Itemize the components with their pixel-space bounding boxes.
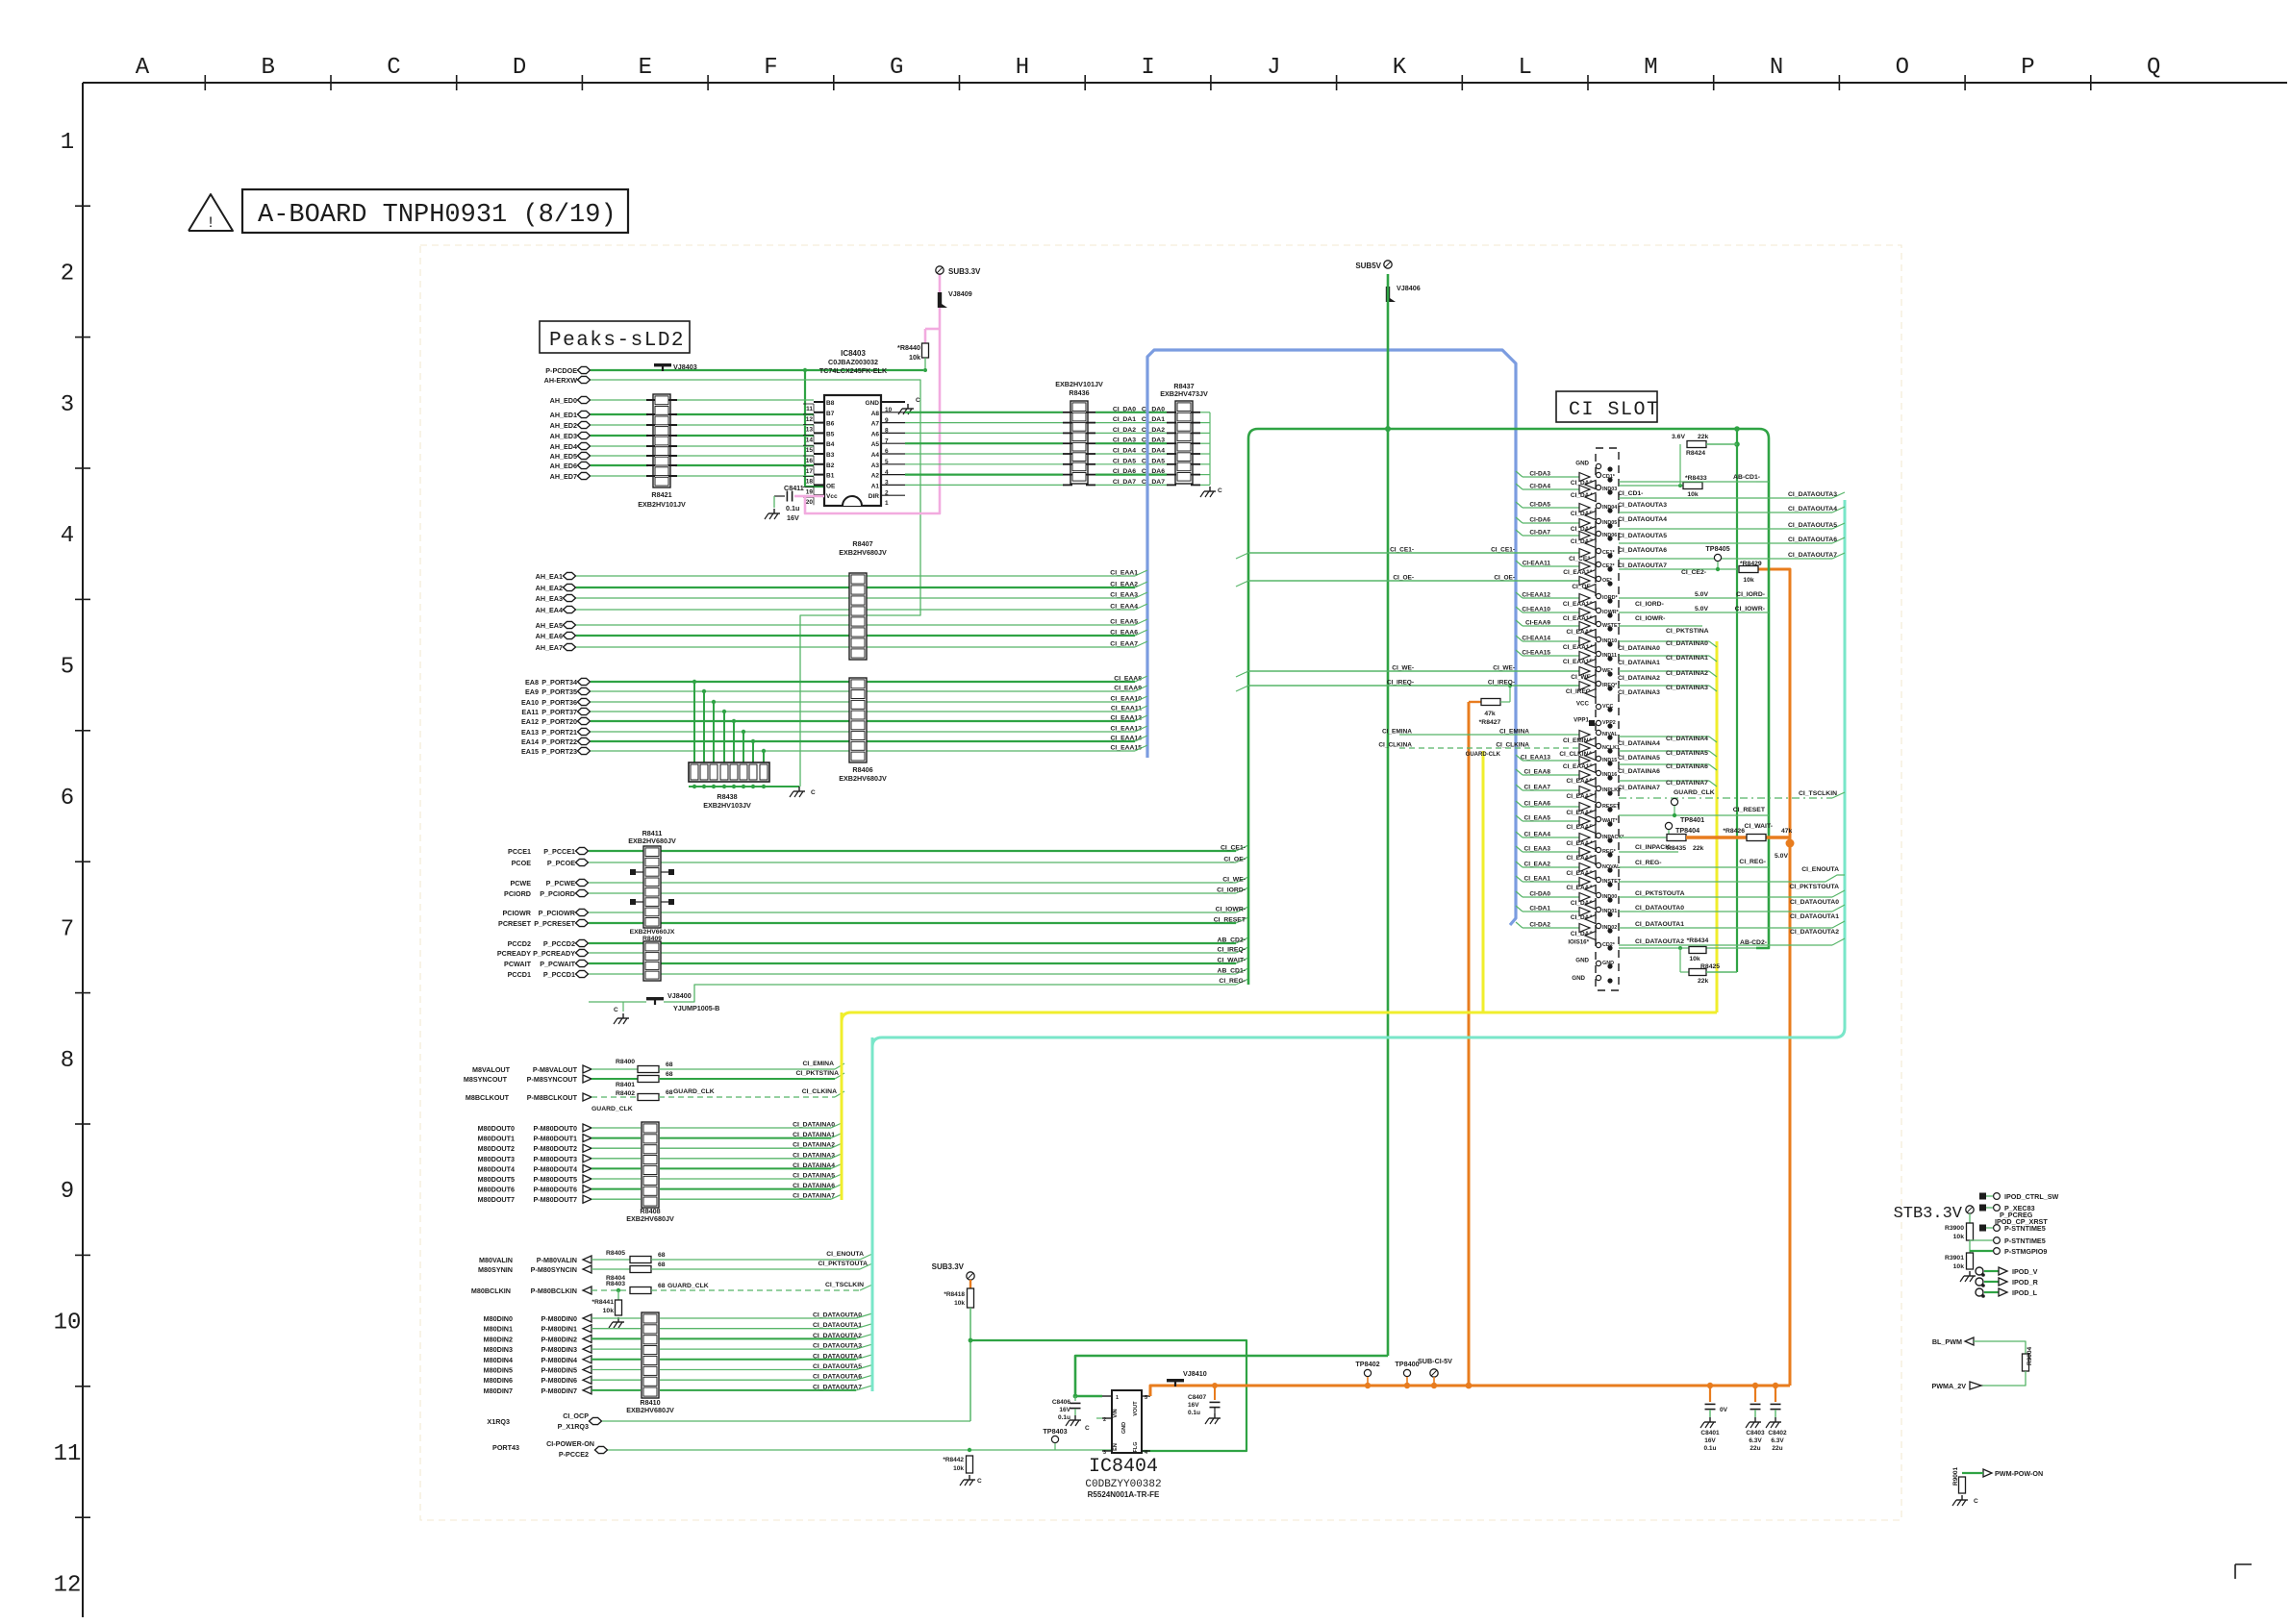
svg-text:TP8400: TP8400 bbox=[1395, 1360, 1419, 1368]
svg-text:CI_EMINA: CI_EMINA bbox=[803, 1061, 835, 1067]
svg-text:CI_DATAINA0: CI_DATAINA0 bbox=[1618, 645, 1660, 652]
svg-text:*R8427: *R8427 bbox=[1479, 719, 1501, 726]
svg-text:5.0V: 5.0V bbox=[1775, 853, 1788, 860]
svg-text:P-M80DOUT5: P-M80DOUT5 bbox=[533, 1175, 577, 1184]
svg-text:SUB-CI-5V: SUB-CI-5V bbox=[1418, 1357, 1452, 1365]
svg-text:CI_DA1: CI_DA1 bbox=[1142, 416, 1165, 423]
svg-text:CI_DATAINA3: CI_DATAINA3 bbox=[1618, 689, 1660, 696]
svg-text:EA13: EA13 bbox=[521, 728, 539, 737]
svg-text:CI_DATAINA7: CI_DATAINA7 bbox=[1666, 780, 1708, 787]
svg-text:R8421: R8421 bbox=[651, 490, 671, 499]
svg-text:CI_EAA1: CI_EAA1 bbox=[1110, 570, 1138, 577]
svg-text:7: 7 bbox=[61, 916, 74, 942]
svg-text:P_PORT22: P_PORT22 bbox=[541, 737, 577, 746]
svg-text:AH_EA1: AH_EA1 bbox=[536, 572, 563, 581]
svg-text:P-M80DIN6: P-M80DIN6 bbox=[541, 1376, 577, 1385]
svg-text:CI_DA1: CI_DA1 bbox=[1113, 416, 1136, 423]
CI_DATAINA4-7 rows to yellow bus bbox=[1619, 736, 1709, 737]
svg-text:IPOD_V: IPOD_V bbox=[2012, 1267, 2038, 1276]
svg-text:CI-DA1: CI-DA1 bbox=[1529, 906, 1550, 912]
svg-text:TC74LCX245FK-ELK: TC74LCX245FK-ELK bbox=[819, 366, 888, 375]
svg-text:A6: A6 bbox=[871, 431, 880, 437]
svg-text:SUB3.3V: SUB3.3V bbox=[948, 267, 981, 276]
svg-text:CI_WE-: CI_WE- bbox=[1493, 665, 1515, 672]
GUARD_CLK dashed to CI_TSCLKIN bbox=[1619, 797, 1832, 799]
svg-text:CI_DA4: CI_DA4 bbox=[1142, 448, 1165, 455]
svg-text:CI_EAA6: CI_EAA6 bbox=[1110, 630, 1138, 637]
svg-text:OE*: OE* bbox=[1602, 578, 1613, 584]
resistor network R8438 EXB2HV103JV horizontal bbox=[689, 762, 769, 782]
svg-text:C: C bbox=[916, 397, 920, 404]
jumper VJ8410 bbox=[1167, 1379, 1184, 1382]
dashed page area border bbox=[420, 245, 1901, 1520]
svg-text:R9001: R9001 bbox=[1952, 1466, 1959, 1486]
svg-text:Vcc: Vcc bbox=[826, 493, 838, 500]
svg-text:P_PCCD2: P_PCCD2 bbox=[543, 939, 575, 948]
svg-text:GND: GND bbox=[1602, 961, 1614, 966]
power symbol SUB5V bbox=[1384, 261, 1392, 268]
CI_IORD- CI_IOWR- rows bbox=[1619, 597, 1769, 599]
svg-text:22k: 22k bbox=[1693, 845, 1704, 852]
svg-text:IND01: IND01 bbox=[1602, 909, 1617, 914]
svg-text:IND11: IND11 bbox=[1602, 653, 1617, 659]
svg-text:VJ8409: VJ8409 bbox=[948, 289, 972, 298]
svg-text:D: D bbox=[513, 55, 526, 81]
svg-text:11: 11 bbox=[54, 1441, 82, 1467]
svg-text:10k: 10k bbox=[1687, 491, 1699, 498]
svg-text:6.3V: 6.3V bbox=[1749, 1437, 1762, 1444]
resistor R3900 bbox=[1969, 1213, 1971, 1223]
AB-CD2- row with R8434 R8425 bbox=[1619, 947, 1756, 949]
svg-text:CI_DATAINA5: CI_DATAINA5 bbox=[1666, 750, 1708, 757]
svg-text:J: J bbox=[1267, 55, 1280, 81]
svg-text:GUARD_CLK: GUARD_CLK bbox=[1674, 789, 1715, 796]
svg-text:O: O bbox=[1896, 55, 1909, 81]
svg-text:CI_OCP: CI_OCP bbox=[563, 1412, 589, 1420]
resistor R3901 bbox=[1967, 1253, 1974, 1269]
svg-text:P-M80DOUT4: P-M80DOUT4 bbox=[533, 1164, 577, 1173]
svg-text:CI_EAA5: CI_EAA5 bbox=[1110, 619, 1138, 626]
green bus x1839 right of CI slot bbox=[1756, 438, 1769, 948]
svg-text:IND03: IND03 bbox=[1602, 487, 1617, 492]
svg-text:A2: A2 bbox=[871, 473, 880, 480]
svg-text:CI_DA6: CI_DA6 bbox=[1142, 468, 1165, 475]
svg-text:CI_IREQ-: CI_IREQ- bbox=[1387, 680, 1414, 687]
svg-text:CI_EAA2: CI_EAA2 bbox=[1524, 862, 1551, 868]
svg-text:CI_PKTSTOUTA: CI_PKTSTOUTA bbox=[1635, 890, 1685, 897]
svg-text:AH_ED5: AH_ED5 bbox=[550, 452, 577, 461]
svg-text:CI-EAA9: CI-EAA9 bbox=[1525, 620, 1550, 627]
svg-text:16V: 16V bbox=[1059, 1407, 1070, 1413]
svg-text:EXB2HV101JV: EXB2HV101JV bbox=[1055, 380, 1103, 388]
svg-text:CI-EAA10: CI-EAA10 bbox=[1522, 607, 1550, 613]
CI_PKTSTINA row bbox=[1619, 625, 1702, 627]
pink 3.3V supply wire to Vcc bbox=[805, 274, 940, 513]
svg-text:IND04: IND04 bbox=[1602, 505, 1617, 511]
svg-text:CI_DATAINA2: CI_DATAINA2 bbox=[1666, 670, 1708, 677]
svg-text:CI_CLKINA: CI_CLKINA bbox=[802, 1088, 837, 1095]
svg-text:P_PCCD1: P_PCCD1 bbox=[543, 970, 575, 979]
svg-text:*R8442: *R8442 bbox=[943, 1457, 964, 1463]
svg-text:P-M80DIN5: P-M80DIN5 bbox=[541, 1366, 577, 1375]
svg-text:CI_OE-: CI_OE- bbox=[1393, 575, 1414, 582]
svg-text:M80DIN0: M80DIN0 bbox=[484, 1314, 513, 1323]
svg-text:A8: A8 bbox=[871, 411, 880, 417]
svg-text:P_PCWE: P_PCWE bbox=[546, 879, 576, 887]
svg-text:68: 68 bbox=[658, 1252, 666, 1259]
svg-text:IPOD_CP_XRST: IPOD_CP_XRST bbox=[1995, 1217, 2048, 1226]
svg-text:PCCE1: PCCE1 bbox=[508, 847, 531, 856]
svg-text:CI_DATAINA1: CI_DATAINA1 bbox=[793, 1132, 835, 1138]
resistor network R8407 EXB2HV680JV bbox=[849, 573, 867, 660]
svg-text:M80DOUT2: M80DOUT2 bbox=[478, 1144, 515, 1153]
svg-text:VJ8403: VJ8403 bbox=[673, 362, 697, 371]
jumper VJ8400 to CI_REG- bbox=[589, 1001, 646, 1003]
svg-text:CI_CE1-: CI_CE1- bbox=[1491, 547, 1515, 554]
svg-text:CI_EAA13: CI_EAA13 bbox=[1521, 755, 1550, 762]
svg-text:CI-EAA14: CI-EAA14 bbox=[1522, 636, 1550, 642]
svg-text:GUARD_CLK: GUARD_CLK bbox=[667, 1283, 709, 1289]
IC8403 left pins B8-B1,OE,Vcc bbox=[814, 401, 824, 403]
svg-text:VJ8400: VJ8400 bbox=[667, 991, 692, 1000]
svg-text:68: 68 bbox=[666, 1062, 673, 1068]
svg-text:*R8433: *R8433 bbox=[1685, 475, 1707, 482]
svg-text:PORT43: PORT43 bbox=[492, 1443, 519, 1452]
svg-text:R8424: R8424 bbox=[1686, 450, 1705, 457]
svg-text:CI_DA5: CI_DA5 bbox=[1142, 458, 1165, 464]
svg-text:CI_OE-: CI_OE- bbox=[1223, 857, 1246, 863]
svg-text:CI_IORD-: CI_IORD- bbox=[1635, 601, 1664, 608]
green bus vertical to CI slot rows bbox=[1247, 438, 1250, 985]
svg-text:EA11: EA11 bbox=[521, 708, 539, 716]
svg-text:EA15: EA15 bbox=[521, 747, 539, 756]
svg-text:CI_DA3: CI_DA3 bbox=[1113, 437, 1136, 444]
svg-text:EXB2HV680JV: EXB2HV680JV bbox=[839, 548, 887, 557]
svg-text:P-M80DIN4: P-M80DIN4 bbox=[541, 1356, 577, 1364]
svg-text:CI-DA4: CI-DA4 bbox=[1529, 484, 1550, 490]
svg-text:K: K bbox=[1393, 55, 1407, 81]
svg-text:47k: 47k bbox=[1781, 828, 1793, 835]
svg-text:CI_EMINA: CI_EMINA bbox=[1382, 729, 1412, 736]
capacitor C8406 at VIN bbox=[1073, 1394, 1078, 1399]
svg-text:C8403: C8403 bbox=[1746, 1430, 1765, 1437]
svg-text:EXB2HV680JV: EXB2HV680JV bbox=[626, 1406, 674, 1414]
svg-text:3.6V: 3.6V bbox=[1672, 434, 1685, 440]
svg-text:CI_DA0: CI_DA0 bbox=[1142, 406, 1165, 412]
svg-text:47k: 47k bbox=[1484, 711, 1496, 717]
svg-text:IND10: IND10 bbox=[1602, 638, 1617, 644]
svg-text:C: C bbox=[387, 55, 400, 81]
jumper VJ8403 bbox=[654, 363, 671, 366]
svg-text:CI_DATAOUTA5: CI_DATAOUTA5 bbox=[813, 1363, 862, 1370]
svg-text:6: 6 bbox=[61, 786, 74, 812]
resistor R8441 pulldown bbox=[617, 1288, 620, 1292]
svg-text:R5524N001A-TR-FE: R5524N001A-TR-FE bbox=[1088, 1490, 1160, 1499]
svg-text:EA8: EA8 bbox=[525, 678, 539, 687]
svg-text:10k: 10k bbox=[1743, 577, 1754, 584]
svg-text:A1: A1 bbox=[871, 483, 880, 489]
IC U8403 TC74LCX245FK body bbox=[824, 395, 881, 506]
svg-text:CI_DATAOUTA7: CI_DATAOUTA7 bbox=[1788, 552, 1837, 559]
svg-text:CI_DATAINA0: CI_DATAINA0 bbox=[1666, 640, 1708, 647]
svg-text:P_PCIORD: P_PCIORD bbox=[540, 889, 575, 898]
svg-text:CI_REG-: CI_REG- bbox=[1635, 860, 1662, 866]
svg-text:0V: 0V bbox=[1720, 1407, 1728, 1413]
svg-text:!: ! bbox=[206, 214, 215, 232]
svg-text:0.1u: 0.1u bbox=[1188, 1410, 1200, 1416]
blue bus CI address/data bbox=[1147, 350, 1516, 925]
svg-text:P-M80DOUT3: P-M80DOUT3 bbox=[533, 1155, 577, 1163]
svg-text:CI_DATAINA3: CI_DATAINA3 bbox=[1666, 685, 1708, 691]
svg-text:IND16: IND16 bbox=[1602, 772, 1617, 778]
svg-text:17: 17 bbox=[806, 468, 814, 475]
svg-text:10k: 10k bbox=[953, 1465, 964, 1472]
svg-text:9: 9 bbox=[61, 1179, 74, 1205]
svg-text:P-M80BCLKIN: P-M80BCLKIN bbox=[531, 1287, 577, 1295]
svg-text:C8401: C8401 bbox=[1700, 1430, 1720, 1437]
svg-text:P-M8VALOUT: P-M8VALOUT bbox=[533, 1065, 578, 1074]
CI_INPACK- CI_REG- labels bbox=[1619, 851, 1678, 853]
svg-text:P_PORT34: P_PORT34 bbox=[541, 678, 577, 687]
svg-text:PWMA_2V: PWMA_2V bbox=[1931, 1382, 1966, 1390]
svg-text:AH_EA5: AH_EA5 bbox=[536, 621, 563, 630]
svg-text:C8406: C8406 bbox=[1052, 1399, 1071, 1406]
svg-text:2: 2 bbox=[61, 261, 74, 287]
svg-text:IOIS16*: IOIS16* bbox=[1568, 939, 1589, 946]
svg-text:CI_CD1-: CI_CD1- bbox=[1618, 490, 1643, 497]
svg-text:A3: A3 bbox=[871, 462, 880, 469]
svg-text:CI_DATAINA0: CI_DATAINA0 bbox=[793, 1122, 835, 1129]
svg-text:CI_DATAOUTA0: CI_DATAOUTA0 bbox=[813, 1312, 862, 1319]
svg-text:CI_DATAINA7: CI_DATAINA7 bbox=[793, 1193, 835, 1200]
svg-text:B5: B5 bbox=[826, 431, 835, 437]
svg-text:REG*: REG* bbox=[1602, 849, 1617, 855]
stub taps down to R8438 bbox=[693, 682, 695, 762]
svg-text:6.3V: 6.3V bbox=[1771, 1437, 1784, 1444]
svg-text:M80DOUT1: M80DOUT1 bbox=[478, 1135, 515, 1143]
svg-text:CI_DATAOUTA4: CI_DATAOUTA4 bbox=[1618, 516, 1667, 523]
svg-text:P_PORT36: P_PORT36 bbox=[541, 698, 577, 707]
svg-text:P-M80DOUT6: P-M80DOUT6 bbox=[533, 1186, 577, 1194]
svg-text:CI_WE-: CI_WE- bbox=[1222, 877, 1246, 884]
svg-text:22k: 22k bbox=[1698, 434, 1709, 440]
svg-text:10k: 10k bbox=[1953, 1234, 1965, 1240]
svg-text:GND: GND bbox=[1121, 1422, 1127, 1434]
svg-text:B: B bbox=[261, 55, 274, 81]
svg-text:C: C bbox=[811, 789, 816, 796]
svg-text:16V: 16V bbox=[1188, 1402, 1199, 1409]
svg-text:VJ8410: VJ8410 bbox=[1183, 1369, 1207, 1378]
resistor R8442 pulldown bbox=[968, 1448, 971, 1452]
svg-text:M80DIN6: M80DIN6 bbox=[484, 1376, 513, 1385]
PWM-POW-ON with R9001 bbox=[1983, 1469, 1992, 1477]
svg-text:CI_DATAINA5: CI_DATAINA5 bbox=[1618, 755, 1660, 762]
svg-text:WE*: WE* bbox=[1602, 668, 1614, 674]
svg-text:12: 12 bbox=[806, 416, 814, 423]
svg-text:TP8401: TP8401 bbox=[1680, 815, 1704, 824]
svg-text:CI_DATAINA2: CI_DATAINA2 bbox=[793, 1142, 835, 1149]
svg-text:10k: 10k bbox=[909, 353, 920, 362]
svg-text:M80DOUT6: M80DOUT6 bbox=[478, 1186, 515, 1194]
svg-text:CI_TSCLKIN: CI_TSCLKIN bbox=[825, 1282, 864, 1288]
svg-text:16: 16 bbox=[806, 458, 814, 464]
svg-text:CI_EAA8: CI_EAA8 bbox=[1524, 769, 1551, 776]
svg-text:CI_DATAOUTA7: CI_DATAOUTA7 bbox=[1618, 562, 1667, 569]
SUB5V wire to IC8404 VIN bbox=[1075, 1356, 1388, 1396]
svg-text:18: 18 bbox=[806, 479, 814, 486]
svg-text:M80DOUT0: M80DOUT0 bbox=[478, 1124, 515, 1133]
svg-text:C: C bbox=[977, 1478, 982, 1485]
IPOD_V IPOD_R IPOD_L jacks bbox=[1976, 1267, 1983, 1275]
svg-text:CI_EAA4: CI_EAA4 bbox=[1110, 604, 1138, 611]
svg-text:*R8426: *R8426 bbox=[1723, 828, 1745, 835]
svg-text:CI_DATAINA2: CI_DATAINA2 bbox=[1618, 675, 1660, 682]
orange rail from VOUT bbox=[1150, 1386, 1790, 1396]
svg-text:M80DIN1: M80DIN1 bbox=[484, 1325, 513, 1334]
svg-text:P_PCIOWR: P_PCIOWR bbox=[539, 909, 576, 917]
svg-text:CI-DA0: CI-DA0 bbox=[1529, 891, 1550, 898]
svg-text:1: 1 bbox=[1116, 1395, 1119, 1401]
wire to IC8404 EN/FLG loop bbox=[970, 1340, 1246, 1451]
svg-text:CI-EAA15: CI-EAA15 bbox=[1522, 650, 1550, 657]
svg-text:M80BCLKIN: M80BCLKIN bbox=[471, 1287, 511, 1295]
svg-text:68: 68 bbox=[666, 1071, 673, 1078]
svg-text:CI_IOWR-: CI_IOWR- bbox=[1735, 606, 1765, 612]
svg-text:P-M80VALIN: P-M80VALIN bbox=[537, 1256, 577, 1264]
svg-text:*R8441: *R8441 bbox=[592, 1299, 614, 1306]
svg-text:CI_OE-: CI_OE- bbox=[1494, 575, 1515, 582]
svg-text:10: 10 bbox=[54, 1311, 82, 1337]
svg-text:VIN: VIN bbox=[1113, 1409, 1119, 1417]
svg-text:A5: A5 bbox=[871, 441, 880, 448]
svg-text:VJ8406: VJ8406 bbox=[1397, 284, 1421, 292]
svg-text:B2: B2 bbox=[826, 462, 835, 469]
svg-text:AH_EA2: AH_EA2 bbox=[536, 584, 563, 592]
svg-text:CI_DATAOUTA6: CI_DATAOUTA6 bbox=[813, 1374, 862, 1381]
svg-text:CI-EAA11: CI-EAA11 bbox=[1523, 561, 1551, 567]
svg-text:68: 68 bbox=[658, 1262, 666, 1268]
svg-text:0.1u: 0.1u bbox=[1058, 1414, 1070, 1421]
svg-text:PCCD2: PCCD2 bbox=[508, 939, 531, 948]
svg-text:CI_DATAOUTA1: CI_DATAOUTA1 bbox=[813, 1322, 862, 1329]
svg-text:10k: 10k bbox=[954, 1300, 965, 1307]
svg-text:68: 68 bbox=[658, 1283, 666, 1289]
IC8403 right pins GND,A8-A1,DIR bbox=[881, 401, 905, 403]
svg-text:B8: B8 bbox=[826, 400, 835, 407]
svg-text:CI_CE2-: CI_CE2- bbox=[1681, 569, 1706, 576]
svg-text:M80VALIN: M80VALIN bbox=[479, 1256, 513, 1264]
svg-text:P-M80DIN1: P-M80DIN1 bbox=[541, 1325, 577, 1334]
svg-text:CI_DA0: CI_DA0 bbox=[1113, 406, 1136, 412]
svg-text:16V: 16V bbox=[787, 513, 799, 522]
svg-text:CI_PKTSTOUTA: CI_PKTSTOUTA bbox=[1790, 884, 1840, 890]
svg-text:IOWR*: IOWR* bbox=[1602, 610, 1620, 615]
svg-text:AB-CD1-: AB-CD1- bbox=[1733, 474, 1760, 481]
svg-text:P-M80DIN7: P-M80DIN7 bbox=[541, 1387, 577, 1395]
svg-text:SUB5V: SUB5V bbox=[1355, 262, 1381, 270]
svg-text:*R8434: *R8434 bbox=[1687, 937, 1709, 944]
svg-text:EA12: EA12 bbox=[521, 717, 539, 726]
resistor network R8411 EXB2HV680JV bbox=[643, 846, 661, 928]
svg-text:CI-EAA12: CI-EAA12 bbox=[1522, 592, 1550, 599]
svg-text:B6: B6 bbox=[826, 421, 835, 428]
svg-text:14: 14 bbox=[806, 437, 814, 443]
svg-text:M80DIN3: M80DIN3 bbox=[484, 1345, 513, 1354]
svg-text:R8400: R8400 bbox=[616, 1059, 635, 1065]
svg-text:C: C bbox=[1974, 1498, 1978, 1505]
svg-text:P_PORT35: P_PORT35 bbox=[541, 687, 577, 696]
svg-text:GUARD_CLK: GUARD_CLK bbox=[592, 1106, 633, 1112]
svg-text:CI_DATAOUTA3: CI_DATAOUTA3 bbox=[1788, 491, 1837, 498]
svg-text:AH-ERXW: AH-ERXW bbox=[544, 376, 578, 385]
svg-text:CI_DATAOUTA4: CI_DATAOUTA4 bbox=[813, 1353, 862, 1360]
svg-text:INSTET: INSTET bbox=[1602, 879, 1622, 885]
ground at VJ8400 bbox=[622, 1002, 624, 1012]
svg-text:CI_DATAOUTA5: CI_DATAOUTA5 bbox=[1618, 533, 1667, 539]
CI_PKTSTOUTA DATAOUTA0-2 rows to teal bbox=[1619, 896, 1832, 898]
svg-text:CI-DA7: CI-DA7 bbox=[1529, 530, 1550, 537]
svg-text:R8403: R8403 bbox=[606, 1281, 625, 1287]
svg-text:13: 13 bbox=[806, 427, 814, 434]
svg-text:AH_ED7: AH_ED7 bbox=[550, 472, 577, 481]
svg-text:CI_REG-: CI_REG- bbox=[1219, 978, 1246, 985]
IC8404 pins bbox=[1102, 1395, 1112, 1397]
svg-text:P-M8SYNCOUT: P-M8SYNCOUT bbox=[527, 1075, 578, 1084]
svg-text:CI_WE-: CI_WE- bbox=[1392, 665, 1414, 672]
svg-text:P-M80SYNCIN: P-M80SYNCIN bbox=[531, 1265, 577, 1274]
svg-text:R9004: R9004 bbox=[2027, 1346, 2033, 1365]
svg-text:IND00: IND00 bbox=[1602, 894, 1617, 900]
svg-text:P-M80DOUT1: P-M80DOUT1 bbox=[533, 1135, 577, 1143]
svg-text:P_PORT21: P_PORT21 bbox=[541, 728, 577, 737]
svg-text:P_PCREADY: P_PCREADY bbox=[533, 949, 575, 958]
CI SLOT block label bbox=[1556, 391, 1657, 422]
svg-text:AH_ED6: AH_ED6 bbox=[550, 462, 577, 470]
svg-text:8: 8 bbox=[61, 1048, 74, 1074]
svg-text:A4: A4 bbox=[871, 452, 880, 459]
svg-text:CI_CE1-: CI_CE1- bbox=[1221, 845, 1246, 852]
resistor network R8421 EXB2HV101JV bbox=[653, 394, 670, 487]
resistor network R8406 EXB2HV680JV bbox=[849, 678, 867, 762]
svg-text:L: L bbox=[1518, 55, 1531, 81]
svg-text:M80DOUT7: M80DOUT7 bbox=[478, 1195, 515, 1204]
svg-text:CI_DATAINA6: CI_DATAINA6 bbox=[793, 1183, 835, 1189]
green bus x1806 bbox=[1736, 429, 1738, 972]
svg-text:PCOE: PCOE bbox=[512, 859, 532, 867]
svg-text:P-M80DIN2: P-M80DIN2 bbox=[541, 1335, 577, 1343]
svg-text:M8SYNCOUT: M8SYNCOUT bbox=[464, 1075, 508, 1084]
svg-text:N: N bbox=[1770, 55, 1783, 81]
svg-text:EN: EN bbox=[1113, 1443, 1119, 1451]
IC IC8404 body bbox=[1112, 1390, 1142, 1453]
svg-text:M: M bbox=[1644, 55, 1657, 81]
svg-text:R8402: R8402 bbox=[616, 1090, 635, 1097]
svg-text:CI_DATAINA3: CI_DATAINA3 bbox=[793, 1152, 835, 1159]
svg-text:CI_IOWR-: CI_IOWR- bbox=[1635, 615, 1665, 622]
svg-text:P-M8BCLKOUT: P-M8BCLKOUT bbox=[527, 1093, 578, 1102]
warning triangle bbox=[189, 194, 233, 231]
svg-text:EA14: EA14 bbox=[521, 737, 539, 746]
unused pin squares at R8411 bbox=[630, 869, 636, 875]
svg-text:TP8405: TP8405 bbox=[1705, 544, 1729, 553]
svg-text:EXB2HV680JV: EXB2HV680JV bbox=[626, 1214, 674, 1223]
svg-text:CI_EAA7: CI_EAA7 bbox=[1110, 641, 1138, 648]
svg-text:AH_ED1: AH_ED1 bbox=[550, 411, 577, 419]
svg-text:PCRESET: PCRESET bbox=[498, 919, 532, 928]
svg-text:GND: GND bbox=[1572, 975, 1585, 982]
SUB5V vertical wire bbox=[1387, 274, 1390, 1356]
border frame ruler lines bbox=[83, 82, 2287, 84]
